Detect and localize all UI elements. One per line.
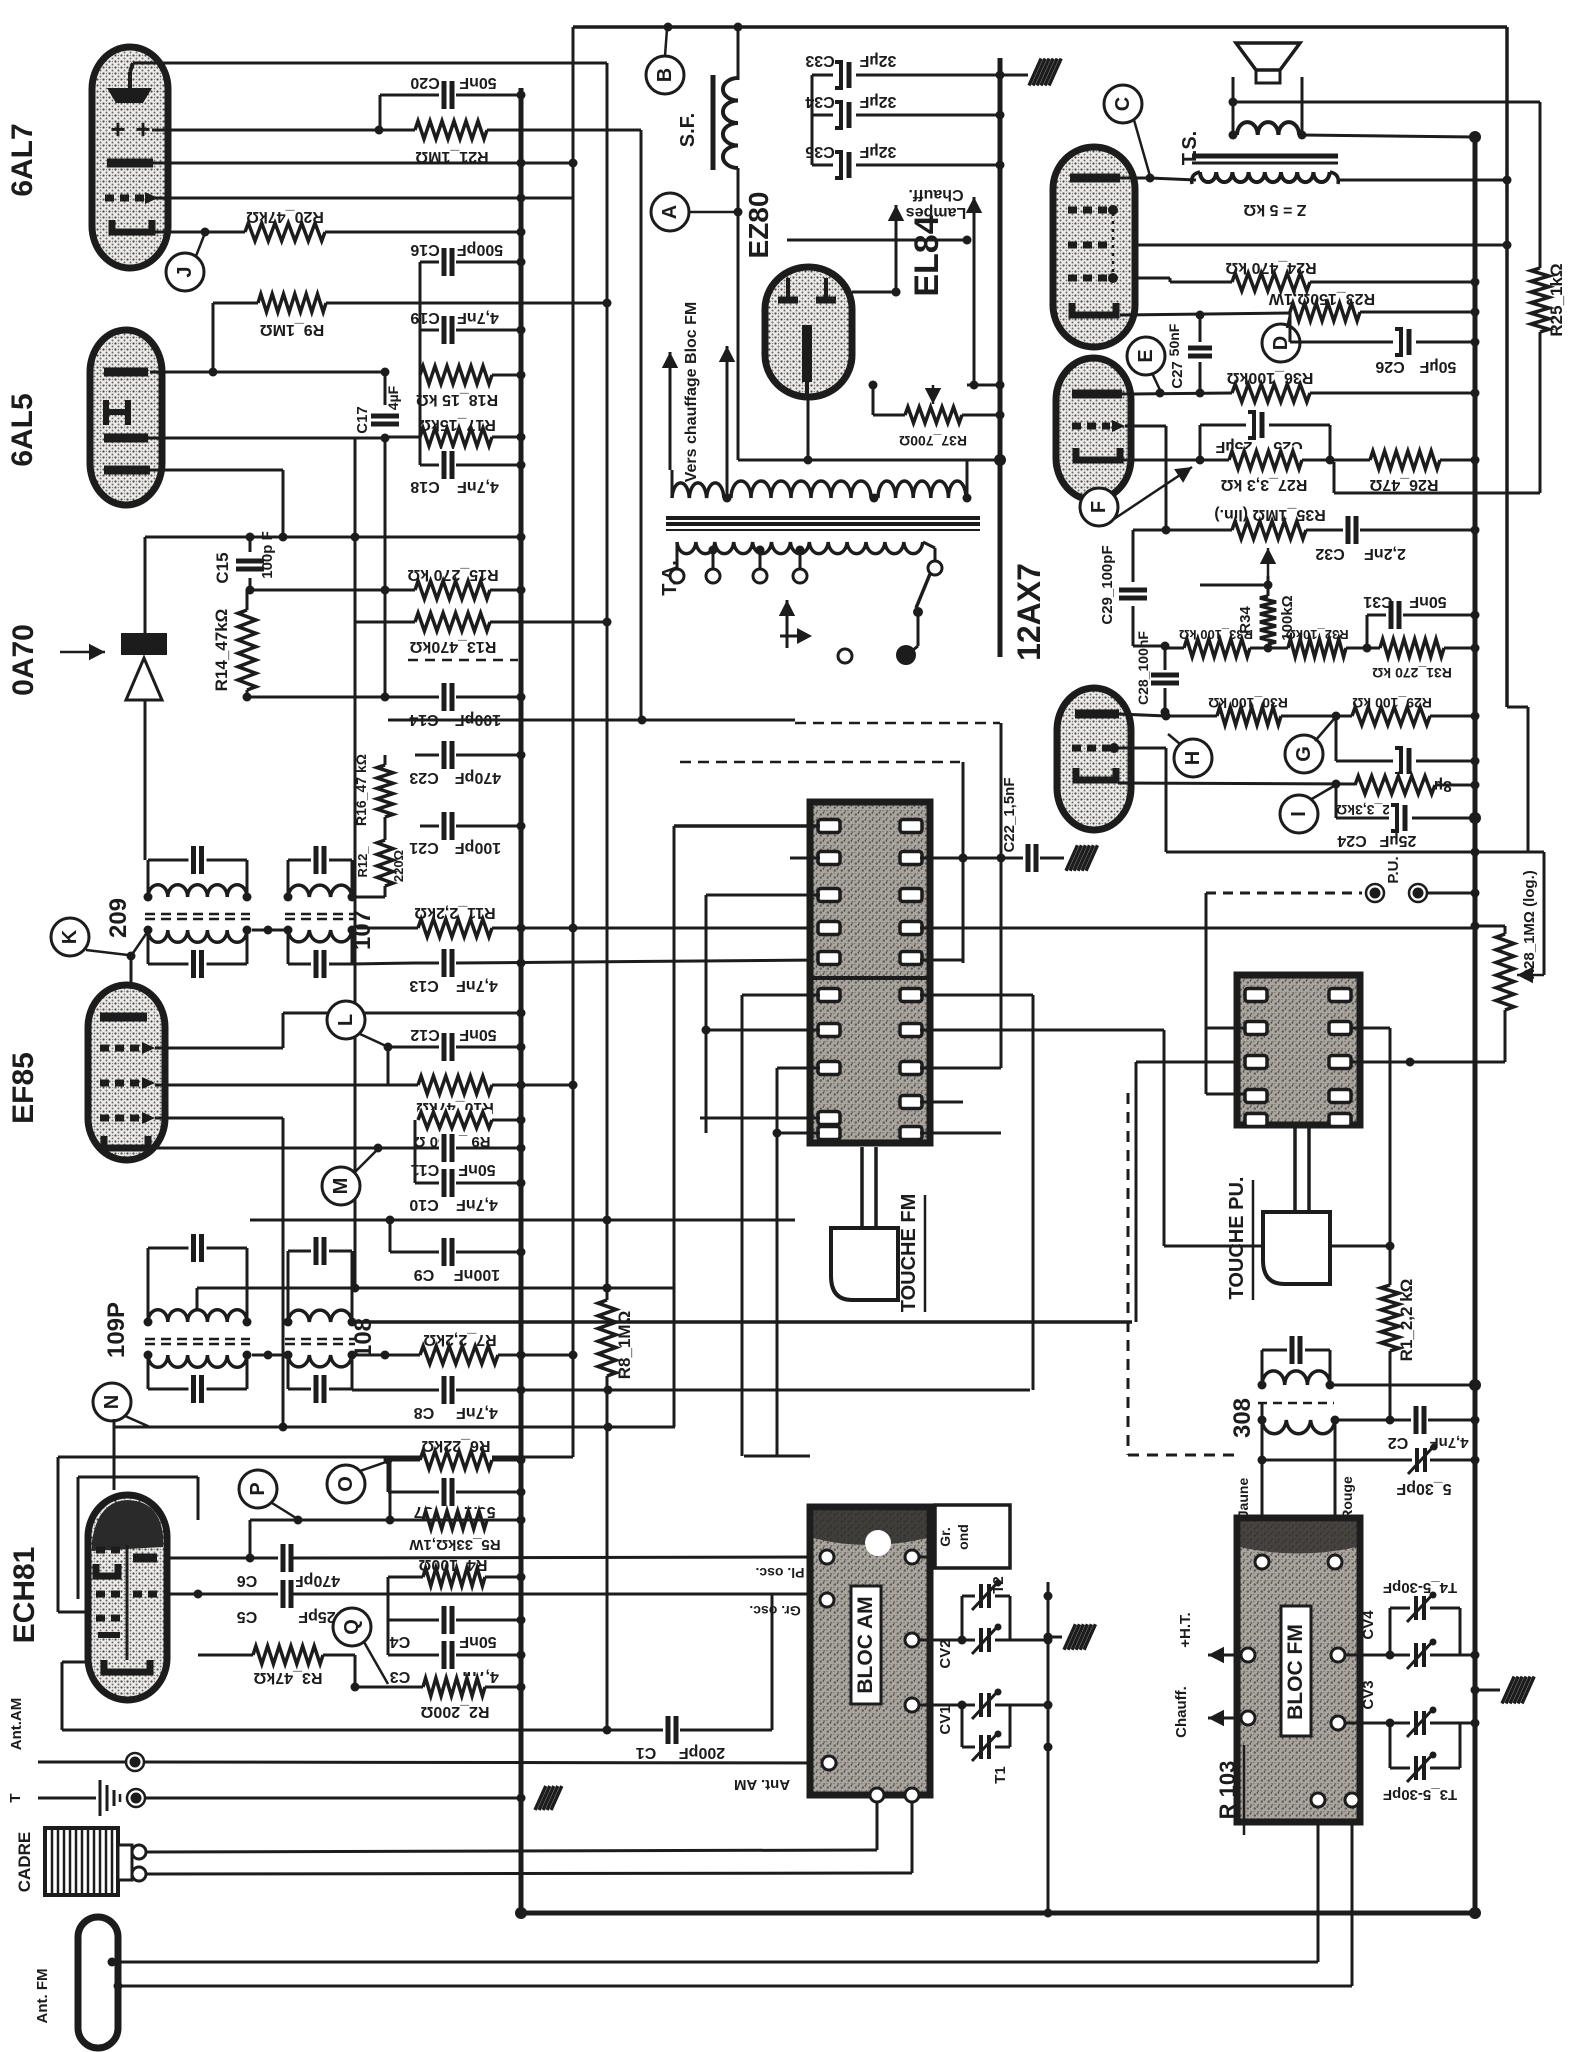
capacitor C5 <box>237 1578 820 1625</box>
resistor R14 <box>212 590 258 702</box>
svg-text:Ant.AM: Ant.AM <box>8 1698 25 1751</box>
wire R21 to x641 <box>487 129 641 132</box>
node F <box>1080 467 1192 526</box>
tube EL84 label <box>908 215 946 296</box>
trimmer CV1 row <box>919 1689 1053 1735</box>
wire EZ80 cathode down <box>807 397 810 460</box>
capacitor C4 <box>388 1604 526 1650</box>
svg-text:R26_47Ω: R26_47Ω <box>1369 476 1438 493</box>
svg-text:R7_2,2kΩ: R7_2,2kΩ <box>423 1331 496 1348</box>
wire row y=1427 <box>114 1419 675 1490</box>
capacitor C16 <box>410 241 525 278</box>
svg-text:50nF: 50nF <box>1166 323 1182 356</box>
svg-text:CV4: CV4 <box>1360 1610 1377 1640</box>
svg-text:Rouge: Rouge <box>1339 1476 1355 1520</box>
capacitor C34 <box>805 93 1004 130</box>
capacitor C31 <box>1363 593 1479 648</box>
wire row pl-osc <box>755 1565 804 1581</box>
antenna Ant.FM <box>34 1917 118 2048</box>
svg-text:EL84: EL84 <box>908 215 946 296</box>
wire dipole line2 <box>114 1805 1353 1991</box>
svg-text:C13: C13 <box>409 977 438 994</box>
capacitor C1 <box>62 1594 772 1761</box>
tube EZ80 anodes <box>778 278 836 397</box>
tube 6AL7 cathode <box>112 220 152 232</box>
block FM pins <box>1241 1555 1359 1807</box>
svg-text:R1_2,2 kΩ: R1_2,2 kΩ <box>1397 1279 1416 1362</box>
svg-text:R23_150Ω,1W: R23_150Ω,1W <box>1268 290 1375 307</box>
node A <box>651 193 743 231</box>
trimmer CV3 row <box>1346 1680 1480 1737</box>
wire EF85 g3 row <box>155 1118 283 1427</box>
label BLOC AM <box>851 1586 881 1704</box>
node H <box>1168 734 1212 777</box>
capacitor C14 <box>409 681 525 728</box>
svg-text:R32_10kΩ: R32_10kΩ <box>1285 627 1348 642</box>
svg-text:25µF: 25µF <box>1379 832 1416 849</box>
wire 6AL7 anode vertical x=607 <box>606 63 609 1730</box>
switch PU keycap <box>1263 1212 1330 1284</box>
node L <box>327 1001 393 1052</box>
svg-text:T.S.: T.S. <box>1179 131 1201 165</box>
transformer 108 <box>284 1235 378 1405</box>
svg-text:Q: Q <box>341 1619 363 1635</box>
capacitor C6 <box>237 1542 820 1589</box>
tube 6AL5 diode plates <box>106 400 128 425</box>
svg-text:C20: C20 <box>410 74 439 91</box>
wire FM pad row 858r <box>920 854 1026 863</box>
svg-text:J: J <box>174 266 196 277</box>
svg-text:CADRE: CADRE <box>15 1832 34 1892</box>
svg-text:P: P <box>247 1482 269 1495</box>
svg-text:CV1: CV1 <box>937 1705 954 1734</box>
wire feedback vertical x=1540 <box>1539 102 1542 493</box>
potentiometer R35 <box>1133 506 1326 590</box>
wire EZ80 plate left <box>752 288 901 297</box>
svg-text:C19: C19 <box>410 309 439 326</box>
svg-text:R15_270 kΩ: R15_270 kΩ <box>407 566 498 583</box>
wire FM pad row 958r <box>920 858 963 963</box>
resistor R32 <box>1285 627 1380 659</box>
wire 209-107 link <box>247 897 288 935</box>
switch block TOUCHE FM <box>810 802 930 1143</box>
svg-text:470pF: 470pF <box>455 769 501 786</box>
capacitor C26 <box>1290 312 1480 375</box>
svg-text:H: H <box>1182 751 1204 765</box>
svg-text:0A70: 0A70 <box>7 624 40 696</box>
svg-text:+H.T.: +H.T. <box>1177 1612 1194 1647</box>
svg-text:Chauff.: Chauff. <box>1173 1686 1190 1738</box>
block BLOC AM <box>810 1507 930 1795</box>
resistor R8 vertical <box>596 1284 634 1380</box>
label Gr ond box <box>919 1505 1010 1568</box>
capacitor C11 <box>411 1132 526 1178</box>
capacitor C17 <box>354 372 401 702</box>
wire row y=590 <box>250 589 415 592</box>
transformer T.A. core <box>666 518 980 530</box>
transformer T.S. label <box>1179 131 1201 165</box>
tube EL84 g2 <box>1068 242 1135 249</box>
tube 6AL5 mid bar <box>104 434 148 443</box>
capacitor C27 <box>1166 315 1214 393</box>
svg-text:4,7nF: 4,7nF <box>457 478 499 495</box>
svg-text:4,7nF: 4,7nF <box>456 1196 498 1213</box>
wire 12AX7a grid loop <box>1125 426 1171 535</box>
tube EL84 plate <box>1070 174 1155 183</box>
svg-text:M: M <box>330 1178 352 1195</box>
svg-text:209: 209 <box>105 898 132 938</box>
tube EZ80 <box>765 267 852 397</box>
wire CV2 bus x=1048 <box>1047 1582 1050 1913</box>
resistor R23 <box>1268 290 1480 323</box>
tube 12AX7b cathode <box>1076 768 1355 789</box>
trimmer T3 loop <box>1383 1723 1460 1803</box>
resistor R22 <box>1336 774 1479 818</box>
ground CV2 <box>1044 1624 1096 1650</box>
capacitor C19 <box>410 309 525 346</box>
trimmer T4 loop <box>1383 1579 1460 1655</box>
transformer T.A. primary <box>672 460 972 503</box>
wire cluster left drop x=420 <box>419 262 422 465</box>
resistor R18 <box>416 364 526 408</box>
wire heater arrow 2 <box>966 197 982 390</box>
switch block TOUCHE PU <box>1237 975 1360 1125</box>
tube ECH81 electrodes <box>96 1545 157 1672</box>
svg-text:TOUCHE PU.: TOUCHE PU. <box>1226 1177 1248 1300</box>
svg-text:T: T <box>7 1793 24 1802</box>
resistor R31 <box>1372 637 1479 681</box>
capacitor C8 <box>352 1374 1030 1421</box>
svg-text:T1: T1 <box>992 1766 1009 1784</box>
svg-text:C18: C18 <box>410 478 439 495</box>
svg-text:C2: C2 <box>1388 1434 1409 1451</box>
switch FM pads right <box>900 820 922 1140</box>
svg-text:L: L <box>335 1014 357 1026</box>
resistor R13 <box>355 611 612 655</box>
trimmer CV4 row <box>1346 1610 1480 1669</box>
resistor R4 <box>388 1556 526 1620</box>
tube EF85 label <box>7 1052 40 1124</box>
svg-text:C34: C34 <box>805 93 834 110</box>
svg-text:25pF: 25pF <box>298 1608 336 1625</box>
wire 6AL7 row y=198 <box>150 194 573 203</box>
capacitor C30 <box>1336 716 1480 794</box>
resistor R36 <box>1135 369 1480 404</box>
transformer T.S. primary <box>1192 172 1339 184</box>
svg-text:32µF: 32µF <box>859 52 896 69</box>
wire 6AL7 row y=163 <box>153 159 578 168</box>
terminal Ant.AM <box>8 1698 829 1771</box>
svg-text:107: 107 <box>349 910 376 950</box>
wire heater arrow 1 <box>888 205 904 297</box>
svg-text:+: + <box>110 114 125 144</box>
svg-text:R36_100kΩ: R36_100kΩ <box>1226 369 1313 386</box>
trimmer T1 loop <box>962 1705 1053 1784</box>
switch PU pads right <box>1329 989 1351 1127</box>
label +HT <box>1177 1612 1240 1663</box>
svg-text:C22_1,5nF: C22_1,5nF <box>1001 777 1018 852</box>
trimmer 5-30pF <box>1262 1402 1480 1497</box>
node I <box>1280 786 1334 833</box>
wire vertical line x=674 <box>673 826 676 1427</box>
block AM pins <box>820 1550 919 1802</box>
svg-text:E: E <box>1135 349 1157 362</box>
svg-text:C6: C6 <box>237 1572 258 1589</box>
svg-text:R31_270 kΩ: R31_270 kΩ <box>1372 665 1452 681</box>
trimmer CV2 row <box>919 1624 1053 1669</box>
transformer 109P <box>103 1232 252 1405</box>
label chauff lampes <box>906 186 967 221</box>
wire vertical line x=641 <box>640 130 643 720</box>
svg-text:50nF: 50nF <box>459 1026 497 1043</box>
svg-text:R11_2,2kΩ: R11_2,2kΩ <box>414 904 496 921</box>
wire CADRE line2 <box>146 1800 912 1874</box>
wire ECH81 osc box <box>58 1457 573 1612</box>
capacitor C25 <box>1200 410 1330 460</box>
capacitor C33 <box>805 52 1004 90</box>
svg-text:Chauff.: Chauff. <box>908 186 963 203</box>
wire thick bottom bus <box>515 1907 1481 1919</box>
tube EF85 top bar <box>100 1013 147 1022</box>
tube ECH81 <box>88 1495 167 1700</box>
svg-text:R28_1MΩ (log.): R28_1MΩ (log.) <box>1521 870 1538 980</box>
diode 0A70 <box>121 537 167 860</box>
svg-text:6AL7: 6AL7 <box>6 123 39 196</box>
capacitor C23 <box>409 739 525 786</box>
wire dashed y=762 <box>680 723 1006 1068</box>
wire 6AL5 cathode row <box>150 470 283 537</box>
svg-text:50nF: 50nF <box>459 74 497 91</box>
wire row y=697 <box>247 696 440 699</box>
wire EF85 cathode row <box>150 1144 440 1153</box>
capacitor C18 <box>410 449 525 495</box>
svg-text:R9_1MΩ: R9_1MΩ <box>260 321 325 338</box>
svg-text:C: C <box>1112 97 1134 111</box>
wire EL84 g2 row <box>1135 241 1512 250</box>
tube EF85 cathode <box>104 1136 148 1148</box>
svg-text:308: 308 <box>1229 1398 1256 1438</box>
wire row y=1220 <box>250 963 795 1225</box>
svg-text:P.U.: P.U. <box>1385 856 1402 883</box>
wire right border vertical x=1507 <box>1505 27 1509 707</box>
svg-text:R29_100 kΩ: R29_100 kΩ <box>1352 695 1432 711</box>
svg-text:BLOC FM: BLOC FM <box>1284 1624 1307 1720</box>
tube 12AX7a cathode <box>1076 448 1120 460</box>
terminal P.U. left <box>1206 884 1384 902</box>
wire FM pad row 826 <box>674 824 820 828</box>
svg-text:R33_100 kΩ: R33_100 kΩ <box>1179 627 1253 642</box>
transformer T.S. core <box>1192 156 1338 163</box>
tube EF85 <box>88 985 165 1160</box>
wire 6AL7 row y=130 <box>152 126 415 135</box>
capacitor C3 <box>388 1639 526 1685</box>
svg-text:Ant. FM: Ant. FM <box>34 1969 51 2024</box>
switch mains <box>779 542 942 665</box>
wire row y=1520 <box>246 1457 526 1563</box>
svg-text:O: O <box>335 1476 357 1492</box>
wire TS left <box>1150 176 1512 185</box>
wire FM pad row 995r <box>920 995 1033 1390</box>
resistor R21 <box>415 119 489 165</box>
svg-text:T3_5-30pF: T3_5-30pF <box>1383 1786 1457 1803</box>
resistor R25 vertical <box>1529 263 1566 336</box>
wire grid drop x=1166 <box>1165 748 1168 852</box>
capacitor C12 <box>388 1026 526 1085</box>
wire Rouge <box>1335 1420 1355 1562</box>
capacitor C35 <box>805 143 1004 180</box>
label Z=5k <box>1243 201 1306 218</box>
tube EL84 <box>1053 147 1135 347</box>
svg-text:R25_1kΩ: R25_1kΩ <box>1547 263 1566 336</box>
block BLOC FM <box>1237 1518 1360 1822</box>
transformer T.A. label <box>659 560 681 596</box>
tube EF85 grid1 <box>100 1042 155 1054</box>
svg-text:TOUCHE FM: TOUCHE FM <box>898 1194 920 1313</box>
svg-text:Gr. osc.: Gr. osc. <box>749 1603 800 1619</box>
resistor R2 <box>355 1676 526 1720</box>
svg-text:I: I <box>1288 811 1310 817</box>
wire vertical line x=355 <box>354 438 357 1288</box>
wire 107 bottom to C13 <box>352 963 415 964</box>
svg-text:4,7nF: 4,7nF <box>456 977 498 994</box>
tube 6AL7 label <box>6 123 39 196</box>
trimmer T2 loop <box>962 1576 1053 1640</box>
svg-text:Z = 5 kΩ: Z = 5 kΩ <box>1243 201 1306 218</box>
svg-text:R17_15kΩ: R17_15kΩ <box>418 416 496 433</box>
svg-text:C16: C16 <box>410 241 439 258</box>
wire speaker top row <box>1229 98 1541 107</box>
svg-text:470pF: 470pF <box>294 1572 340 1589</box>
svg-text:R5_33kΩ,1W: R5_33kΩ,1W <box>409 1536 501 1553</box>
wire FM pad row 928r <box>920 927 1475 930</box>
resistor R27 <box>1221 449 1335 493</box>
svg-text:100p F: 100p F <box>259 531 276 579</box>
svg-text:ECH81: ECH81 <box>8 1547 41 1644</box>
tube 12AX7a plate <box>1072 390 1135 399</box>
svg-text:R 103: R 103 <box>1215 1761 1240 1820</box>
svg-text:T2: T2 <box>990 1576 1007 1594</box>
node O <box>327 1456 393 1504</box>
switch FM keycap <box>831 1228 898 1300</box>
tube EL84 cathode <box>1072 303 1116 315</box>
wire feedback jog x=1528 <box>1507 707 1528 852</box>
node N <box>93 1383 150 1427</box>
resistor R6 <box>388 1437 526 1471</box>
resistor R9b <box>413 1110 525 1150</box>
wire CADRE line1 <box>146 1800 877 1852</box>
svg-text:R37_700Ω: R37_700Ω <box>899 433 967 449</box>
wire FM pad rows left stubs <box>700 895 820 1456</box>
svg-text:C15: C15 <box>213 552 232 583</box>
label TOUCHE PU <box>1226 1177 1253 1300</box>
tube 6AL7 grid plus-plus <box>110 114 150 144</box>
svg-text:C28_100nF: C28_100nF <box>1135 631 1151 705</box>
capacitor C28 <box>1135 631 1181 717</box>
svg-text:R12_: R12_ <box>355 846 370 878</box>
svg-text:T4_5-30pF: T4_5-30pF <box>1383 1579 1457 1596</box>
capacitor C7 <box>388 1460 526 1520</box>
resistor R3 <box>198 1594 360 1692</box>
svg-text:50nF: 50nF <box>459 1633 497 1650</box>
resistor R1 vertical <box>1379 1279 1416 1425</box>
transformer 107 <box>284 844 377 980</box>
wire 6AL5 row y=438 <box>148 434 390 443</box>
capacitor C2 <box>1335 1404 1480 1451</box>
resistor R7 <box>355 1331 578 1366</box>
wire long row y=852 <box>1166 848 1544 976</box>
wire C20 drop x=380 <box>379 95 382 130</box>
wire 12AX7a cathode row <box>1120 456 1229 465</box>
svg-text:C32: C32 <box>1315 545 1344 562</box>
svg-text:R16_47 kΩ: R16_47 kΩ <box>353 754 369 826</box>
wire heater row 240 <box>787 236 972 245</box>
svg-text:R6_22kΩ: R6_22kΩ <box>421 1437 490 1454</box>
svg-text:C29_100pF: C29_100pF <box>1099 545 1116 624</box>
label BLOC FM <box>1281 1606 1311 1736</box>
tube EL84 g3 <box>1068 213 1118 283</box>
tube EL84 g1 <box>1068 205 1118 215</box>
wire EF85 g2 row <box>155 1084 418 1087</box>
svg-text:C1: C1 <box>636 1744 657 1761</box>
svg-text:C3: C3 <box>390 1668 411 1685</box>
svg-text:C21: C21 <box>409 839 438 856</box>
tube 6AL7 dashed electrode <box>105 192 158 204</box>
wire drop x=1136 <box>1135 1062 1138 1322</box>
wire cluster drop x=415 <box>414 1120 417 1183</box>
svg-text:100pF: 100pF <box>455 839 501 856</box>
wire EF85 g1 row <box>155 1009 526 1049</box>
tube EF85 grid2 <box>100 1077 155 1089</box>
resistor R12 vertical <box>355 840 406 897</box>
wire FM pad row 1102-1133 <box>920 1068 1001 1133</box>
tube 12AX7b <box>1057 688 1131 830</box>
wire top border <box>573 23 1507 32</box>
wire row y=385 <box>967 240 1005 390</box>
wire 109P tap <box>197 1284 675 1311</box>
wire 109P-108 link <box>252 1351 288 1360</box>
resistor R9h <box>213 292 612 338</box>
tube EZ80 label <box>743 192 774 259</box>
node C <box>1104 85 1150 176</box>
svg-text:ond: ond <box>955 1524 971 1550</box>
tube 6AL7 <box>92 47 168 268</box>
tube 12AX7a <box>1056 358 1131 500</box>
wire PU pad right 1062 <box>1350 1061 1410 1064</box>
svg-text:108: 108 <box>350 1318 377 1358</box>
svg-text:EZ80: EZ80 <box>743 192 774 259</box>
svg-text:220Ω: 220Ω <box>391 850 406 882</box>
svg-text:CV2: CV2 <box>937 1639 954 1668</box>
ground near C33 <box>1000 59 1061 86</box>
resistor R24 <box>1135 259 1480 293</box>
wire FM pad row 1068r <box>920 995 1001 1068</box>
wire ECH81 cathode drop <box>62 1662 88 1730</box>
svg-text:C10: C10 <box>409 1196 438 1213</box>
svg-text:C35: C35 <box>805 143 834 160</box>
svg-text:50µF: 50µF <box>1419 358 1456 375</box>
svg-text:50nF: 50nF <box>458 1161 496 1178</box>
svg-text:Gr.: Gr. <box>937 1527 953 1546</box>
svg-text:G: G <box>1293 746 1315 762</box>
potentiometer R37 <box>869 381 1005 450</box>
node E <box>1127 337 1165 390</box>
svg-text:F: F <box>1088 501 1110 513</box>
svg-text:R2_200Ω: R2_200Ω <box>420 1703 489 1720</box>
svg-text:100nF: 100nF <box>454 1266 500 1283</box>
capacitor C22 <box>1001 777 1097 874</box>
node P <box>239 1470 303 1525</box>
wire dashed PU <box>1128 1093 1237 1455</box>
